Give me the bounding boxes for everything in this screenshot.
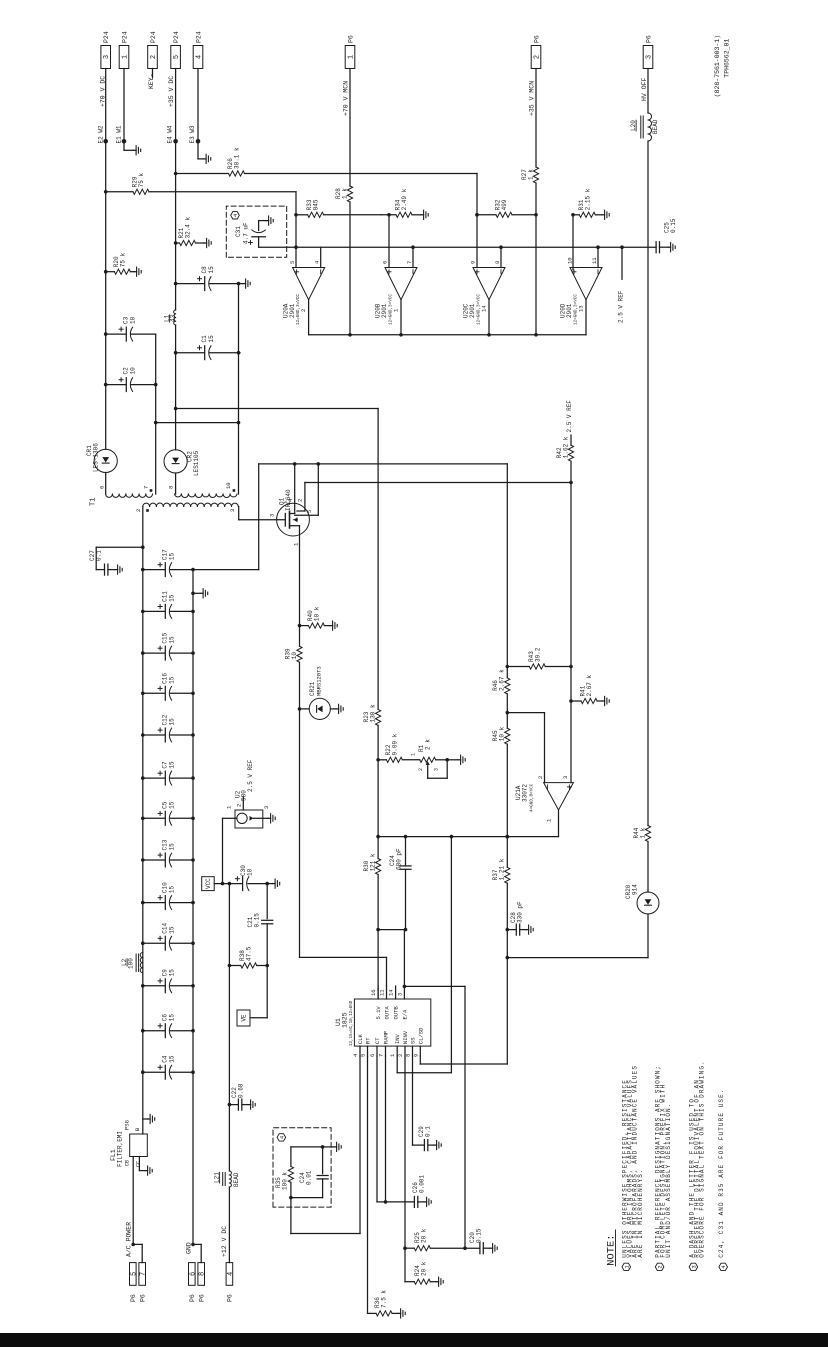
- svg-text:HV OFF: HV OFF: [641, 77, 648, 101]
- svg-text:75 k: 75 k: [119, 252, 126, 267]
- svg-text:7: 7: [143, 486, 150, 489]
- svg-text:3: 3: [263, 806, 270, 809]
- svg-text:11: 11: [379, 989, 386, 996]
- svg-text:P6: P6: [198, 1294, 205, 1302]
- svg-text:2: 2: [537, 776, 544, 779]
- svg-text:T1: T1: [90, 498, 98, 506]
- svg-text:2: 2: [397, 1054, 404, 1057]
- svg-text:20 k: 20 k: [421, 1261, 428, 1276]
- svg-text:(828-7561-003-1): (828-7561-003-1): [714, 35, 721, 97]
- svg-text:15: 15: [169, 801, 176, 809]
- svg-text:2.5 V REF: 2.5 V REF: [566, 400, 573, 433]
- svg-text:C14: C14: [162, 922, 169, 933]
- svg-text:9: 9: [412, 1054, 419, 1057]
- svg-text:P6: P6: [189, 1294, 196, 1302]
- svg-text:1: 1: [410, 753, 416, 756]
- svg-text:4=GND,8=VCC: 4=GND,8=VCC: [530, 783, 535, 812]
- svg-text:2: 2: [297, 499, 304, 502]
- svg-text:14: 14: [388, 989, 395, 996]
- svg-text:C10: C10: [162, 882, 169, 893]
- svg-text:E1 W1: E1 W1: [116, 125, 123, 143]
- svg-text:2.67 k: 2.67 k: [499, 669, 506, 691]
- svg-text:6: 6: [99, 486, 106, 489]
- svg-text:BEAD: BEAD: [233, 1172, 240, 1187]
- svg-text:8: 8: [199, 1272, 207, 1276]
- svg-text:12=GND,3=VCC: 12=GND,3=VCC: [389, 294, 394, 325]
- svg-text:16: 16: [370, 989, 377, 996]
- svg-text:+70 V DC: +70 V DC: [99, 76, 106, 107]
- svg-text:15: 15: [169, 843, 176, 851]
- svg-text:580: 580: [241, 790, 248, 801]
- svg-text:43: 43: [170, 314, 177, 322]
- svg-text:2: 2: [300, 309, 307, 312]
- svg-text:15: 15: [208, 335, 215, 343]
- svg-text:3: 3: [269, 514, 276, 517]
- svg-text:15: 15: [169, 718, 176, 726]
- svg-text:PSG: PSG: [124, 1120, 131, 1130]
- svg-text:10: 10: [225, 482, 232, 489]
- svg-text:47.5: 47.5: [246, 946, 253, 961]
- svg-text:UNIT AND/OR ASSEMBLY DESIGNATI: UNIT AND/OR ASSEMBLY DESIGNATION.: [665, 1103, 672, 1258]
- svg-text:SS: SS: [410, 1037, 417, 1044]
- svg-text:5: 5: [130, 1272, 138, 1276]
- svg-text:15: 15: [169, 594, 176, 602]
- svg-text:C3: C3: [123, 316, 130, 324]
- svg-text:OUTB: OUTB: [393, 1006, 400, 1020]
- svg-text:0.15: 0.15: [476, 1228, 483, 1243]
- svg-text:20 k: 20 k: [421, 1228, 428, 1243]
- svg-text:10: 10: [567, 257, 574, 264]
- svg-text:2: 2: [150, 55, 158, 59]
- svg-text:130 k: 130 k: [369, 704, 376, 722]
- svg-text:1: 1: [348, 55, 356, 59]
- svg-text:P6: P6: [139, 1294, 146, 1302]
- svg-text:1: 1: [122, 55, 130, 59]
- svg-text:+35 V MCN: +35 V MCN: [528, 81, 535, 116]
- svg-text:6: 6: [189, 1272, 197, 1276]
- svg-text:P6: P6: [533, 35, 540, 43]
- svg-text:1 k: 1 k: [527, 169, 534, 180]
- svg-text:0.001: 0.001: [419, 1175, 426, 1193]
- svg-text:2901: 2901: [289, 303, 296, 318]
- svg-text:P24: P24: [173, 31, 180, 43]
- svg-text:15: 15: [169, 1055, 176, 1063]
- svg-text:8: 8: [494, 261, 501, 264]
- svg-text:7.5 k: 7.5 k: [381, 1290, 388, 1308]
- svg-text:2: 2: [135, 509, 142, 512]
- svg-text:15: 15: [169, 761, 176, 769]
- svg-text:FILTER,EMI: FILTER,EMI: [117, 1131, 124, 1167]
- svg-text:4: 4: [196, 55, 204, 59]
- svg-text:2.49 k: 2.49 k: [401, 188, 408, 210]
- svg-text:5.1V: 5.1V: [375, 1006, 382, 1020]
- svg-text:OUTA: OUTA: [384, 1006, 391, 1020]
- svg-text:5: 5: [289, 261, 296, 264]
- svg-text:5: 5: [306, 510, 313, 513]
- svg-text:1 k: 1 k: [341, 188, 348, 199]
- svg-text:10: 10: [130, 367, 137, 375]
- svg-text:P6: P6: [227, 1294, 234, 1302]
- svg-text:3: 3: [646, 55, 654, 59]
- svg-text:33072: 33072: [522, 784, 529, 802]
- svg-text:2: 2: [236, 804, 243, 807]
- svg-text:LES-1306: LES-1306: [93, 443, 100, 472]
- svg-text:39.2: 39.2: [534, 647, 541, 662]
- svg-text:VE: VE: [241, 1014, 248, 1022]
- svg-text:12=GND,3=VCC: 12=GND,3=VCC: [477, 294, 482, 325]
- svg-text:845: 845: [313, 199, 320, 210]
- svg-text:C7: C7: [162, 761, 169, 769]
- svg-text:6: 6: [369, 1054, 376, 1057]
- svg-text:C24, C31 AND R35 ARE FOR FUTUR: C24, C31 AND R35 ARE FOR FUTURE USE.: [718, 1088, 725, 1257]
- svg-text:10: 10: [130, 316, 137, 324]
- svg-text:12=GND,3=VCC: 12=GND,3=VCC: [574, 294, 579, 325]
- svg-text:C5: C5: [162, 801, 169, 809]
- svg-text:3: 3: [229, 509, 236, 512]
- svg-text:3: 3: [103, 55, 111, 59]
- svg-text:0.15: 0.15: [254, 913, 261, 928]
- svg-text:15: 15: [169, 1014, 176, 1022]
- svg-text:13,15=NC,10,12=GND: 13,15=NC,10,12=GND: [350, 1000, 354, 1046]
- svg-text:+12 V DC: +12 V DC: [221, 1226, 228, 1257]
- svg-text:C15: C15: [162, 632, 169, 643]
- svg-text:2 k: 2 k: [425, 739, 432, 750]
- svg-text:BEAD: BEAD: [652, 119, 659, 134]
- svg-text:914: 914: [632, 884, 639, 895]
- svg-text:121 k: 121 k: [369, 853, 376, 871]
- svg-text:100: 100: [128, 958, 135, 969]
- svg-text:10 k: 10 k: [499, 726, 506, 741]
- svg-text:100 k: 100 k: [282, 1172, 289, 1190]
- svg-text:MBRS120T3: MBRS120T3: [316, 666, 323, 696]
- svg-text:P24: P24: [195, 31, 202, 43]
- svg-text:P24: P24: [150, 31, 157, 43]
- svg-text:15: 15: [169, 636, 176, 644]
- svg-text:0.01: 0.01: [306, 1170, 313, 1185]
- svg-text:11: 11: [591, 257, 598, 264]
- svg-text:8: 8: [168, 486, 175, 489]
- svg-text:C1: C1: [201, 335, 208, 343]
- svg-text:LES1105: LES1105: [193, 450, 200, 476]
- svg-text:NINV: NINV: [402, 1030, 409, 1044]
- svg-text:2901: 2901: [381, 303, 388, 318]
- svg-text:CL/SD: CL/SD: [417, 1027, 424, 1044]
- svg-text:VCC: VCC: [205, 878, 212, 889]
- svg-text:3: 3: [396, 993, 403, 996]
- svg-text:3: 3: [562, 776, 569, 779]
- svg-text:E/A: E/A: [401, 1009, 408, 1020]
- svg-text:10: 10: [247, 868, 254, 876]
- svg-text:KEY-: KEY-: [148, 73, 155, 89]
- svg-text:1.21 k: 1.21 k: [499, 858, 506, 880]
- svg-text:CB: CB: [124, 1160, 130, 1166]
- svg-text:C8: C8: [201, 266, 208, 274]
- svg-text:C31: C31: [235, 226, 242, 237]
- svg-text:6: 6: [382, 261, 389, 264]
- svg-text:1.62 k: 1.62 k: [562, 436, 569, 458]
- svg-text:E4 W4: E4 W4: [167, 125, 174, 143]
- svg-text:CLK: CLK: [357, 1033, 364, 1044]
- svg-text:3: 3: [433, 768, 439, 771]
- svg-text:C12: C12: [162, 714, 169, 725]
- svg-text:15: 15: [208, 266, 215, 274]
- svg-text:E3 W3: E3 W3: [189, 125, 196, 143]
- svg-text:+35 V DC: +35 V DC: [168, 76, 175, 107]
- svg-text:330 pF: 330 pF: [517, 901, 524, 923]
- svg-text:680 pF: 680 pF: [396, 848, 403, 870]
- svg-text:2901: 2901: [469, 303, 476, 318]
- svg-text:10 k: 10 k: [313, 606, 320, 621]
- svg-text:C4: C4: [162, 1055, 169, 1063]
- svg-text:15: 15: [169, 676, 176, 684]
- svg-text:15: 15: [169, 926, 176, 934]
- svg-text:4.7 uF: 4.7 uF: [243, 222, 250, 244]
- svg-text:RT: RT: [365, 1037, 372, 1044]
- svg-text:2.5 V REF: 2.5 V REF: [247, 759, 254, 792]
- svg-text:9.09 k: 9.09 k: [391, 733, 398, 755]
- svg-text:12=GND,3=VCC: 12=GND,3=VCC: [296, 294, 301, 325]
- svg-text:1825: 1825: [341, 1012, 348, 1028]
- svg-text:P24: P24: [103, 31, 110, 43]
- svg-text:C11: C11: [162, 591, 169, 602]
- svg-text:7: 7: [406, 261, 413, 264]
- svg-text:2.67 k: 2.67 k: [586, 674, 593, 696]
- svg-text:2901: 2901: [566, 303, 573, 318]
- svg-text:INV: INV: [394, 1033, 401, 1044]
- svg-text:P6: P6: [130, 1294, 137, 1302]
- svg-text:GND: GND: [185, 1242, 192, 1254]
- svg-text:+70 V MCN: +70 V MCN: [342, 81, 349, 116]
- svg-text:15: 15: [169, 885, 176, 893]
- svg-text:ARE IN MICROHENRYS.: ARE IN MICROHENRYS.: [637, 1168, 644, 1257]
- svg-text:TPH6562_01: TPH6562_01: [724, 39, 731, 78]
- svg-text:C6: C6: [162, 1014, 169, 1022]
- svg-text:3: 3: [690, 1265, 697, 1268]
- svg-text:4: 4: [227, 1272, 235, 1276]
- svg-text:5: 5: [173, 55, 181, 59]
- svg-text:C2: C2: [123, 367, 130, 375]
- svg-text:15: 15: [169, 552, 176, 560]
- svg-text:0.1: 0.1: [96, 550, 103, 561]
- svg-text:2.5 V REF: 2.5 V REF: [618, 290, 625, 323]
- svg-text:30.1 k: 30.1 k: [234, 147, 241, 169]
- svg-text:7: 7: [140, 1272, 148, 1276]
- svg-text:0.1: 0.1: [425, 1126, 432, 1137]
- svg-text:E2 W2: E2 W2: [98, 125, 105, 143]
- svg-text:2: 2: [534, 55, 542, 59]
- svg-text:C9: C9: [162, 969, 169, 977]
- svg-text:OVERSCORE FOR SIGNAL TEXT ON T: OVERSCORE FOR SIGNAL TEXT ON THIS DRAWIN…: [699, 1060, 706, 1257]
- svg-text:1 k: 1 k: [639, 827, 646, 838]
- svg-text:C16: C16: [162, 673, 169, 684]
- svg-text:2.15 k: 2.15 k: [584, 188, 591, 210]
- svg-text:CC: CC: [136, 1161, 142, 1167]
- svg-text:9: 9: [470, 261, 477, 264]
- svg-text:2: 2: [418, 768, 424, 771]
- svg-text:A/C POWER: A/C POWER: [125, 1222, 132, 1257]
- svg-text:10: 10: [291, 652, 298, 660]
- svg-text:CT: CT: [374, 1037, 381, 1044]
- svg-text:14: 14: [481, 305, 488, 312]
- svg-text:2: 2: [657, 1265, 664, 1268]
- svg-text:15: 15: [169, 969, 176, 977]
- svg-text:C13: C13: [162, 839, 169, 850]
- svg-text:C17: C17: [162, 549, 169, 560]
- svg-text:P24: P24: [121, 31, 128, 43]
- svg-text:13: 13: [578, 305, 585, 312]
- svg-text:7: 7: [378, 1054, 385, 1057]
- svg-text:32.4 k: 32.4 k: [185, 216, 192, 238]
- svg-text:P6: P6: [347, 35, 354, 43]
- svg-text:499: 499: [501, 199, 508, 210]
- svg-text:75 k: 75 k: [138, 172, 145, 187]
- svg-text:0.15: 0.15: [670, 218, 677, 233]
- svg-text:0.68: 0.68: [238, 1083, 245, 1098]
- svg-text:RAMP: RAMP: [383, 1031, 390, 1044]
- svg-text:P6: P6: [645, 35, 652, 43]
